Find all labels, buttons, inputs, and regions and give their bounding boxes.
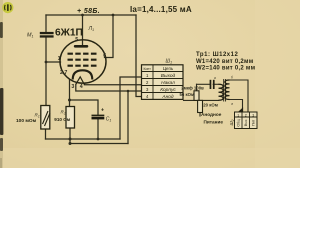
svg-text:2мкф 100в: 2мкф 100в xyxy=(181,85,204,90)
resistor R2 xyxy=(66,107,75,129)
svg-text:R1: R1 xyxy=(35,113,40,119)
resistor R3 56k xyxy=(194,91,199,101)
node C1 ground junction xyxy=(97,138,100,141)
svg-text:Тр1: Ш12х12: Тр1: Ш12х12 xyxy=(196,52,238,58)
tube grid dashes xyxy=(68,54,97,66)
label anode supply xyxy=(201,112,223,124)
wire screen lead xyxy=(105,15,114,58)
svg-text:Анод: Анод xyxy=(161,94,174,100)
microphone M1 plates xyxy=(40,32,54,38)
svg-text:3: 3 xyxy=(252,113,254,117)
wire grid riser xyxy=(45,38,47,106)
svg-text:Вых: Вых xyxy=(244,119,248,126)
node chassis junction xyxy=(69,142,72,145)
svg-text:6: 6 xyxy=(103,53,106,59)
label winding terminals xyxy=(214,76,233,106)
node screen junction xyxy=(112,14,115,17)
scan edge artifacts (left) xyxy=(0,0,3,168)
wire cathode node to C1 xyxy=(70,100,99,115)
tube anode plate xyxy=(74,45,89,48)
wire cathode lead xyxy=(69,80,71,107)
svg-text:6Ж1П: 6Ж1П xyxy=(55,27,83,38)
svg-text:20 кОм: 20 кОм xyxy=(203,102,218,107)
wire C1 bottom xyxy=(97,119,99,139)
connector Sh2 table xyxy=(235,112,258,129)
capacitor C1 xyxy=(92,115,105,120)
svg-text:2: 2 xyxy=(245,113,247,117)
wire grid to pin 1 xyxy=(46,61,61,63)
tube heater xyxy=(76,77,85,85)
resistor R1 xyxy=(41,106,50,130)
secondary winding xyxy=(225,80,230,99)
svg-text:910 Ом: 910 Ом xyxy=(54,117,71,122)
svg-text:3: 3 xyxy=(71,84,74,90)
tube cathode dome xyxy=(73,70,93,79)
svg-text:б: б xyxy=(231,76,233,80)
node heater ground junction xyxy=(127,90,130,93)
svg-text:5: 5 xyxy=(75,37,78,43)
svg-text:а: а xyxy=(214,76,216,80)
wire chassis rail xyxy=(70,143,128,145)
svg-text:Iа=1,4...1,55 мА: Iа=1,4...1,55 мА xyxy=(130,5,192,14)
wire anode lead xyxy=(82,15,84,45)
svg-text:100 мОм: 100 мОм xyxy=(16,118,37,124)
wire R1 bottom xyxy=(45,129,47,139)
wire ground rail xyxy=(46,138,121,140)
svg-text:Выход: Выход xyxy=(161,73,176,79)
wire top supply rail xyxy=(46,14,136,16)
label transformer spec xyxy=(196,52,256,72)
svg-text:Накал: Накал xyxy=(161,80,175,86)
node R2 ground junction xyxy=(69,138,72,141)
svg-text:1: 1 xyxy=(237,113,239,117)
resistor R4 20k xyxy=(198,100,203,112)
wire heater pin3 to row3 xyxy=(76,84,142,91)
wire anode feed riser xyxy=(136,15,142,97)
svg-text:Цепь: Цепь xyxy=(163,66,174,71)
svg-text:56 кОм: 56 кОм xyxy=(180,92,195,97)
wire heater pin4 to row2 xyxy=(84,83,141,86)
wire coupling cap feed xyxy=(197,83,210,85)
wire divider riser xyxy=(196,84,198,91)
svg-text:+: + xyxy=(101,108,104,114)
node cathode junction xyxy=(68,99,71,102)
wire R2 bottom xyxy=(69,128,71,144)
chassis flag Sh2 xyxy=(238,107,244,112)
wire supply rail B xyxy=(184,99,219,101)
primary winding xyxy=(219,84,224,100)
wire row1 output riser xyxy=(120,77,142,139)
wire secondary bottom to Sh2 xyxy=(230,100,243,113)
svg-text:Корпус: Корпус xyxy=(160,87,176,93)
capacitor C2 coupling plates xyxy=(210,80,215,89)
wire chassis riser xyxy=(127,91,129,144)
svg-text:Пит: Пит xyxy=(251,119,255,125)
connector Sh1 table xyxy=(142,65,184,100)
wire microphone branch xyxy=(45,15,47,32)
core xyxy=(224,79,226,102)
svg-text:W1=420 вит 0,2мм: W1=420 вит 0,2мм xyxy=(196,59,254,65)
svg-text:+ 58Б.: + 58Б. xyxy=(77,8,100,15)
svg-text:Общ: Общ xyxy=(236,119,240,127)
svg-text:Конт: Конт xyxy=(144,67,152,71)
wire 20k bottom xyxy=(199,113,201,117)
wire cap to primary top xyxy=(213,83,218,85)
svg-text:W2=140 вит 0,2 мм: W2=140 вит 0,2 мм xyxy=(196,66,256,72)
node grid junction xyxy=(45,61,48,64)
svg-text:4: 4 xyxy=(80,84,83,90)
svg-text:1: 1 xyxy=(58,56,61,62)
node anode junction xyxy=(81,14,84,17)
svg-text:Питание: Питание xyxy=(204,119,224,124)
logo xyxy=(2,2,13,13)
tube V1 envelope xyxy=(60,40,106,83)
wire secondary top to Sh2 xyxy=(230,80,249,112)
transformer Tr1 xyxy=(219,79,230,102)
svg-text:R2: R2 xyxy=(61,110,66,116)
svg-text:2,7: 2,7 xyxy=(60,70,67,76)
svg-text:Анодное: Анодное xyxy=(201,112,222,117)
